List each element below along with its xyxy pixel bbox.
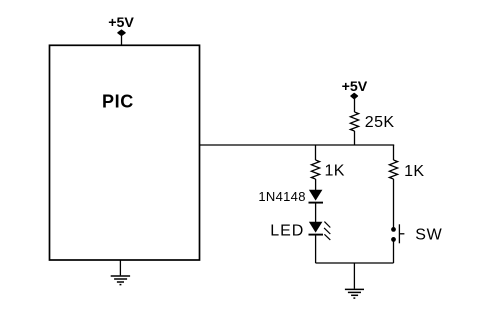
svg-text:+5V: +5V [108, 15, 134, 31]
svg-text:PIC: PIC [102, 92, 134, 112]
ground (right circuit) [345, 289, 364, 298]
LED D2 [309, 222, 324, 235]
ground (PIC) [111, 276, 130, 285]
svg-text:25K: 25K [365, 114, 395, 131]
svg-text:1K: 1K [404, 163, 424, 180]
switch SW (push button) [391, 224, 404, 243]
resistor 1K (left) [311, 160, 319, 179]
wire resistor 1K to diode D1 [315, 179, 317, 190]
wire diode D1 to LED [315, 204, 317, 223]
svg-text:+5V: +5V [342, 79, 368, 95]
wire LED to bottom rail [315, 236, 317, 264]
wire +5V dot to resistor 25K [354, 96, 356, 112]
svg-text:1K: 1K [325, 162, 345, 179]
wire PIC output to branches (net OUT) [200, 144, 395, 146]
wire switch SW to bottom rail [393, 241, 395, 263]
LED light rays [324, 222, 330, 240]
wire resistor 1K to switch SW [393, 179, 395, 228]
wire resistor 25K to net OUT [354, 131, 356, 145]
wire +5V dot to PIC top [121, 33, 123, 46]
diode D1 1N4148 [309, 190, 324, 203]
IC U1 PIC box [50, 45, 200, 260]
wire net OUT corner to resistor 1K (right branch) [393, 145, 395, 160]
resistor 25K [350, 112, 358, 131]
svg-text:1N4148: 1N4148 [258, 189, 305, 204]
wire bottom rail [316, 262, 394, 264]
wire net OUT to resistor 1K (left branch) [315, 145, 317, 160]
svg-text:LED: LED [270, 223, 304, 240]
wire bottom rail to ground [353, 263, 355, 289]
node dot +5V/R 25K [351, 93, 358, 98]
node dot +5V/PIC [118, 30, 125, 35]
svg-text:SW: SW [415, 227, 442, 244]
resistor 1K (right) [389, 160, 397, 179]
wire PIC bottom to ground [119, 260, 121, 275]
